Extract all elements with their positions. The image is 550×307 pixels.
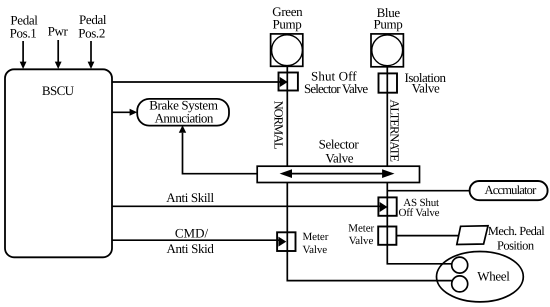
label Blue Pump xyxy=(374,5,403,32)
wire pedal pos.2 input arrow xyxy=(88,41,95,69)
label NORMAL xyxy=(272,101,286,150)
wire normal line below selector valve to meter valve and wheel xyxy=(287,183,452,281)
svg-text:Valve: Valve xyxy=(349,235,374,247)
pump Blue xyxy=(371,34,403,67)
svg-text:ALTERNATE: ALTERNATE xyxy=(387,99,401,162)
svg-text:Pump: Pump xyxy=(273,17,302,32)
valve selector xyxy=(257,166,419,182)
block Accumulator xyxy=(470,181,548,200)
svg-text:Wheel: Wheel xyxy=(477,268,510,283)
svg-text:Pwr: Pwr xyxy=(48,24,69,39)
wire pwr input arrow xyxy=(55,40,62,69)
svg-text:Annuciation: Annuciation xyxy=(155,110,214,125)
wire BSCU to brake system annunciation xyxy=(112,109,137,116)
svg-text:Meter: Meter xyxy=(348,222,374,234)
wire alternate line below selector valve to AS valve, meter valve and wheel xyxy=(387,183,452,264)
svg-text:Off Valve: Off Valve xyxy=(399,207,440,219)
svg-text:Pos.2: Pos.2 xyxy=(78,26,105,41)
svg-text:Anti Skill: Anti Skill xyxy=(166,190,214,205)
svg-text:Selector Valve: Selector Valve xyxy=(304,81,368,96)
wire alternate hydraulic line (blue pump to selector valve) xyxy=(386,67,388,166)
svg-text:Valve: Valve xyxy=(325,151,353,166)
svg-text:NORMAL: NORMAL xyxy=(272,101,286,150)
wheel xyxy=(437,252,524,302)
wire meter valve to mech pedal position xyxy=(396,235,458,237)
svg-text:Anti Skid: Anti Skid xyxy=(166,241,214,256)
valve shut-off selector xyxy=(279,73,298,91)
svg-text:Position: Position xyxy=(497,239,535,253)
svg-text:Meter: Meter xyxy=(303,231,329,243)
label Anti Skill xyxy=(166,190,214,205)
label CMD/ Anti Skid xyxy=(166,226,214,257)
wheel brake port upper xyxy=(452,257,468,273)
svg-text:CMD/: CMD/ xyxy=(175,226,209,241)
valve meter (normal) xyxy=(277,232,295,251)
label Isolation Valve xyxy=(405,70,447,96)
label Meter Valve (normal) xyxy=(303,231,329,256)
svg-text:Pump: Pump xyxy=(374,17,403,32)
label Pedal Pos.2 xyxy=(78,12,107,41)
svg-text:Valve: Valve xyxy=(303,244,328,256)
label ALTERNATE xyxy=(387,99,401,162)
label Selector Valve xyxy=(319,137,360,166)
svg-text:Mech. Pedal: Mech. Pedal xyxy=(488,224,546,238)
svg-text:Valve: Valve xyxy=(412,81,440,96)
valve AS shut off xyxy=(378,197,396,215)
label Pwr xyxy=(48,24,69,39)
label Shut Off Selector Valve xyxy=(304,68,368,96)
label Meter Valve (alternate) xyxy=(348,222,374,247)
block Brake System Annuciation xyxy=(137,97,229,125)
wire BSCU CMD/anti skid to meter valve xyxy=(112,239,280,241)
svg-text:Accmulator: Accmulator xyxy=(484,183,537,197)
pump Green xyxy=(271,34,303,66)
block BSCU xyxy=(5,69,112,257)
svg-text:Pos.1: Pos.1 xyxy=(10,26,37,41)
label AS Shut Off Valve xyxy=(399,197,440,219)
valve isolation xyxy=(379,73,398,92)
wheel brake port lower xyxy=(452,276,468,292)
wire normal hydraulic line (green pump to selector valve) xyxy=(286,66,288,166)
wire BSCU to shut-off selector valve xyxy=(112,81,281,83)
wire pedal pos.1 input arrow xyxy=(20,41,27,69)
valve meter (alternate) xyxy=(378,227,396,245)
label Pedal Pos.1 xyxy=(10,13,39,41)
wire selector valve feedback to annunciation xyxy=(179,125,257,174)
svg-text:Selector: Selector xyxy=(319,137,360,152)
block Mech. Pedal Position (parallelogram) xyxy=(457,224,546,253)
label Green Pump xyxy=(272,4,303,32)
wire BSCU anti skid command to AS shut off valve xyxy=(112,205,382,207)
wire to accumulator xyxy=(387,190,470,192)
svg-text:BSCU: BSCU xyxy=(42,83,75,98)
